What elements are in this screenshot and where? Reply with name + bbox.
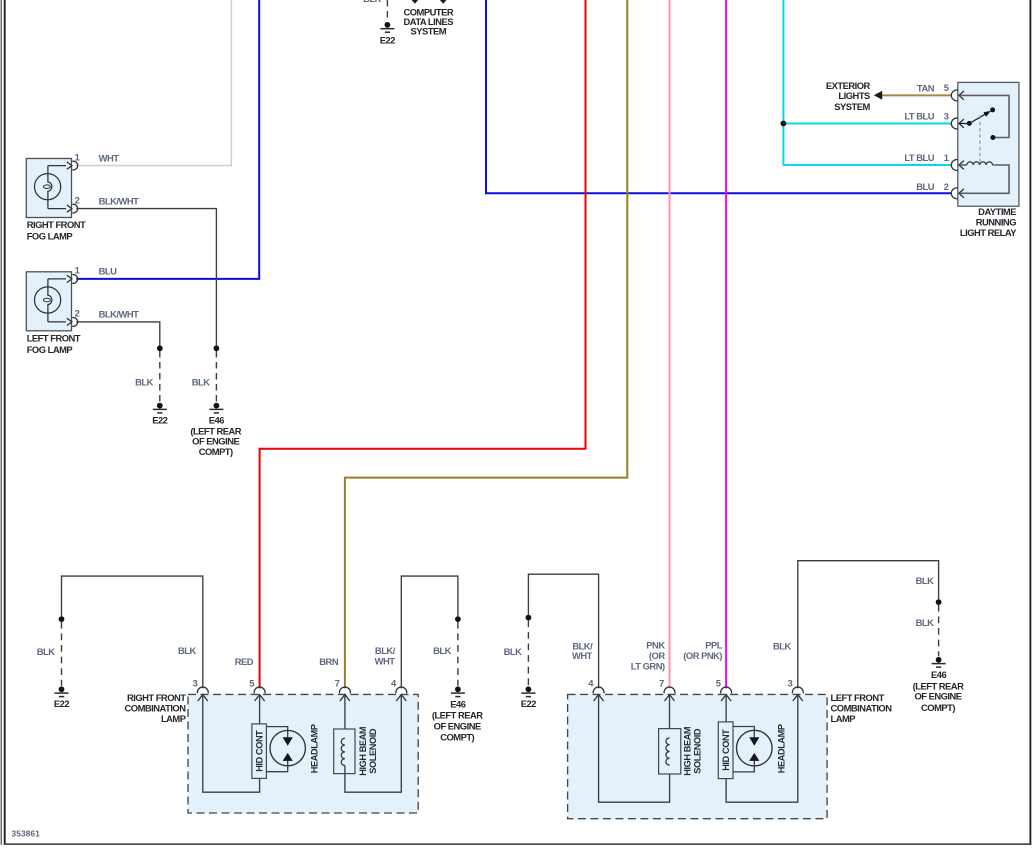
svg-text:BRN: BRN bbox=[319, 656, 339, 667]
pin 7 connector bbox=[339, 687, 350, 701]
svg-text:5: 5 bbox=[716, 678, 721, 689]
wire PNK to left lamp pin 7 bbox=[669, 0, 671, 688]
relay fixed contact dot bbox=[990, 135, 995, 140]
headlamp connecting stubs bbox=[733, 727, 754, 772]
headlamp bulb circle (right lamp) bbox=[270, 730, 305, 765]
internal wire pin 5 bbox=[259, 695, 261, 724]
svg-text:5: 5 bbox=[249, 678, 254, 689]
solenoid to pin 4 wire bbox=[345, 695, 401, 793]
internal wire pin 7 bbox=[669, 695, 671, 738]
svg-text:2: 2 bbox=[75, 308, 80, 319]
wire BLK dashed to ground E22 (top) bbox=[386, 0, 388, 23]
junction dot bbox=[157, 345, 163, 351]
svg-text:COMPT): COMPT) bbox=[199, 446, 233, 457]
svg-text:2: 2 bbox=[75, 194, 80, 205]
ground E22 (bottom left) bbox=[55, 686, 69, 696]
pin 7 connector bbox=[664, 687, 675, 701]
svg-text:WHT: WHT bbox=[375, 655, 396, 666]
svg-text:WHT: WHT bbox=[572, 650, 593, 661]
ground E46 (mid) bbox=[209, 403, 223, 413]
relay pin 2 connector bbox=[951, 188, 964, 199]
svg-text:3: 3 bbox=[787, 678, 792, 689]
svg-text:DAYTIME: DAYTIME bbox=[978, 206, 1016, 217]
junction dot bbox=[936, 599, 942, 605]
HID controller (right lamp) bbox=[252, 724, 267, 779]
left fog pin 1 connector bbox=[67, 275, 78, 284]
relay pin 3 connector bbox=[951, 118, 964, 129]
right fog lamp bulb bbox=[35, 166, 67, 209]
junction dot bbox=[214, 345, 220, 351]
svg-text:BLK: BLK bbox=[192, 377, 210, 388]
ground E22 (top) bbox=[380, 22, 394, 32]
svg-text:BLK: BLK bbox=[37, 646, 55, 657]
page border right bbox=[1029, 0, 1031, 845]
svg-text:1: 1 bbox=[75, 265, 80, 276]
svg-text:RIGHT FRONT: RIGHT FRONT bbox=[27, 219, 86, 230]
svg-text:E22: E22 bbox=[521, 698, 536, 709]
svg-text:7: 7 bbox=[335, 678, 340, 689]
relay internal wire pin5 to fixed contact bbox=[960, 95, 1010, 137]
wire TAN from relay pin 5 bbox=[882, 94, 951, 96]
arrow to exterior lights system bbox=[874, 91, 882, 100]
right front fog lamp body bbox=[26, 159, 71, 218]
pin 3 connector bbox=[792, 687, 803, 701]
svg-text:BLK: BLK bbox=[773, 640, 791, 651]
ground E46 (right) bbox=[932, 657, 946, 667]
svg-text:7: 7 bbox=[659, 678, 664, 689]
HID controller (left lamp) bbox=[718, 722, 733, 779]
left combination lamp body bbox=[568, 694, 828, 818]
headlamp arc electrodes bbox=[749, 737, 759, 746]
page border left outer bbox=[0, 0, 2, 845]
svg-text:BLK/WHT: BLK/WHT bbox=[99, 309, 139, 320]
relay switch common dot (pin 3) bbox=[967, 121, 972, 126]
wire BLU from left fog lamp pin 1 bbox=[76, 0, 259, 279]
svg-text:RUNNING: RUNNING bbox=[976, 217, 1016, 228]
relay actuator dashed link bbox=[979, 116, 981, 162]
junction dot bbox=[59, 616, 65, 622]
svg-text:BLK: BLK bbox=[433, 645, 451, 656]
wire BLK from pin 3 to E22 ground bbox=[62, 576, 203, 688]
svg-text:BLK: BLK bbox=[363, 0, 381, 4]
svg-text:HEADLAMP: HEADLAMP bbox=[777, 724, 787, 773]
svg-text:E22: E22 bbox=[380, 35, 395, 46]
svg-text:E22: E22 bbox=[152, 415, 167, 426]
svg-text:BLK/WHT: BLK/WHT bbox=[99, 195, 139, 206]
svg-text:(OR PNK): (OR PNK) bbox=[683, 650, 722, 661]
svg-text:BLK: BLK bbox=[916, 575, 934, 586]
internal wire pin 3 bbox=[726, 695, 798, 803]
relay pin 1 connector bbox=[951, 160, 964, 171]
relay upper contact dot bbox=[990, 107, 995, 112]
ground E46 (bottom) bbox=[451, 686, 465, 696]
svg-text:SYSTEM: SYSTEM bbox=[411, 25, 447, 36]
dashed BLK to ground E46 bbox=[215, 351, 217, 402]
svg-text:SYSTEM: SYSTEM bbox=[834, 101, 870, 112]
page border bottom bbox=[5, 843, 1032, 845]
relay coil bbox=[960, 164, 967, 166]
internal wire pin 5 bbox=[725, 695, 727, 722]
wire BLK from pin 3 to E46 ground bbox=[798, 561, 939, 689]
svg-text:LIGHT RELAY: LIGHT RELAY bbox=[960, 227, 1017, 238]
svg-text:SOLENOID: SOLENOID bbox=[368, 728, 378, 774]
svg-text:PNK: PNK bbox=[646, 640, 665, 651]
wire PPL to left lamp pin 5 bbox=[725, 0, 727, 688]
svg-text:LT GRN): LT GRN) bbox=[631, 660, 665, 671]
dashed BLK to ground bbox=[457, 622, 459, 686]
svg-text:E46: E46 bbox=[931, 669, 946, 680]
svg-text:3: 3 bbox=[944, 110, 949, 121]
svg-text:5: 5 bbox=[944, 82, 949, 93]
svg-text:LEFT FRONT: LEFT FRONT bbox=[27, 332, 81, 343]
wire LT BLU branch to relay pin 3 bbox=[783, 123, 951, 125]
svg-text:SOLENOID: SOLENOID bbox=[692, 728, 702, 774]
svg-text:WHT: WHT bbox=[99, 152, 120, 163]
wire LT BLU vertical to relay bbox=[783, 0, 951, 165]
svg-text:BLK: BLK bbox=[504, 646, 522, 657]
svg-text:BLU: BLU bbox=[916, 181, 934, 192]
left front fog lamp body bbox=[26, 272, 71, 331]
svg-text:COMPT): COMPT) bbox=[440, 732, 474, 743]
svg-text:3: 3 bbox=[192, 678, 197, 689]
svg-text:PPL: PPL bbox=[705, 640, 723, 651]
right fog pin 1 connector bbox=[67, 161, 78, 170]
wire RED to right lamp pin 5 bbox=[260, 0, 586, 688]
wire BLK/WHT from pin 4 to E46 ground bbox=[401, 576, 458, 688]
junction dot bbox=[526, 615, 532, 621]
junction dot bbox=[455, 616, 461, 622]
svg-text:BLU: BLU bbox=[99, 266, 117, 277]
pin 5 connector bbox=[721, 687, 732, 701]
wire BLK/WHT from pin 4 to E22 ground bbox=[528, 574, 598, 688]
relay body bbox=[958, 82, 1019, 206]
right fog pin 2 connector bbox=[67, 204, 78, 213]
svg-text:BLK: BLK bbox=[916, 617, 934, 628]
left fog lamp bulb bbox=[35, 279, 67, 322]
headlamp connecting stubs bbox=[266, 727, 287, 772]
dashed BLK to ground E22 bbox=[159, 351, 161, 402]
dashed BLK to ground bbox=[938, 605, 940, 657]
svg-text:TAN: TAN bbox=[917, 83, 935, 94]
wire BRN to right lamp pin 7 bbox=[345, 0, 627, 688]
svg-text:HIGH BEAM: HIGH BEAM bbox=[358, 726, 368, 776]
solenoid coil bbox=[666, 738, 670, 765]
svg-text:OF ENGINE: OF ENGINE bbox=[434, 720, 481, 731]
ground E22 (bottom, left lamp) bbox=[521, 686, 535, 696]
solenoid coil bbox=[341, 738, 345, 765]
high beam solenoid (left lamp) bbox=[659, 729, 681, 774]
relay switch arm with arrowhead bbox=[960, 111, 991, 124]
pin 3 connector bbox=[197, 687, 208, 701]
svg-text:2: 2 bbox=[944, 181, 949, 192]
svg-text:COMBINATION: COMBINATION bbox=[125, 702, 187, 713]
page border left inner bbox=[4, 0, 6, 845]
svg-text:LAMP: LAMP bbox=[831, 713, 856, 724]
svg-text:OF ENGINE: OF ENGINE bbox=[914, 691, 961, 702]
svg-text:E46: E46 bbox=[450, 698, 465, 709]
wire BLU to relay pin 2 bbox=[486, 0, 951, 193]
wire BLK/WHT from right fog pin 2 to E46 ground bbox=[76, 209, 216, 346]
svg-text:COMBINATION: COMBINATION bbox=[831, 702, 893, 713]
svg-text:353861: 353861 bbox=[12, 830, 41, 839]
svg-text:BLK: BLK bbox=[135, 377, 153, 388]
svg-text:1: 1 bbox=[944, 152, 949, 163]
svg-text:COMPT): COMPT) bbox=[921, 702, 955, 713]
svg-text:BLK: BLK bbox=[178, 645, 196, 656]
svg-text:1: 1 bbox=[75, 151, 80, 162]
left fog pin 2 connector bbox=[67, 318, 78, 327]
svg-text:FOG LAMP: FOG LAMP bbox=[27, 231, 73, 242]
dashed BLK to ground bbox=[527, 620, 529, 686]
high beam solenoid (right lamp) bbox=[334, 729, 355, 774]
right combination lamp body bbox=[188, 694, 418, 813]
svg-text:LEFT FRONT: LEFT FRONT bbox=[831, 692, 885, 703]
svg-text:HEADLAMP: HEADLAMP bbox=[309, 724, 319, 773]
ground E22 (mid) bbox=[153, 403, 167, 413]
arrow to computer data lines (right) bbox=[440, 0, 447, 4]
svg-text:LIGHTS: LIGHTS bbox=[838, 90, 870, 101]
svg-text:LT BLU: LT BLU bbox=[904, 152, 934, 163]
pin 4 connector bbox=[396, 687, 407, 701]
svg-text:RIGHT FRONT: RIGHT FRONT bbox=[127, 692, 186, 703]
arrow to computer data lines (left) bbox=[411, 0, 418, 4]
svg-text:(LEFT REAR: (LEFT REAR bbox=[913, 680, 964, 691]
svg-text:E22: E22 bbox=[54, 698, 69, 709]
svg-text:HID CONT: HID CONT bbox=[721, 729, 731, 771]
svg-text:LAMP: LAMP bbox=[161, 713, 186, 724]
wire WHT from right fog lamp pin 1 bbox=[76, 0, 231, 166]
svg-text:LT BLU: LT BLU bbox=[904, 110, 934, 121]
dashed BLK to ground bbox=[61, 622, 63, 686]
internal wire pin 3 bbox=[203, 695, 260, 793]
pin 5 connector bbox=[254, 687, 265, 701]
junction on LT BLU bbox=[781, 121, 787, 127]
svg-text:HID CONT: HID CONT bbox=[254, 730, 264, 772]
pin 4 connector bbox=[593, 687, 604, 701]
svg-text:FOG LAMP: FOG LAMP bbox=[27, 344, 73, 355]
relay pin 5 connector bbox=[951, 90, 964, 101]
svg-text:RED: RED bbox=[235, 656, 254, 667]
wire BLK/WHT from left fog pin 2 to E22 ground bbox=[76, 322, 160, 346]
headlamp arc electrodes bbox=[283, 737, 293, 746]
internal wire pin 7 bbox=[344, 695, 346, 739]
svg-text:HIGH BEAM: HIGH BEAM bbox=[682, 726, 692, 776]
svg-text:E46: E46 bbox=[209, 415, 224, 426]
internal wire pin 4 bbox=[599, 695, 670, 803]
headlamp bulb circle (left lamp) bbox=[737, 730, 773, 766]
svg-text:(LEFT REAR: (LEFT REAR bbox=[432, 710, 483, 721]
